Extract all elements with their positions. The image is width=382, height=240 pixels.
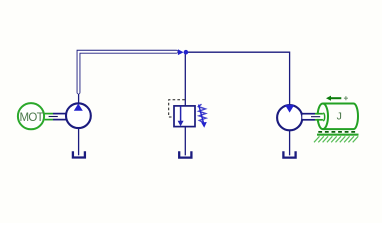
pilot line (dashed) <box>169 100 185 117</box>
wire: pump bottom to tank <box>78 128 80 155</box>
rotation direction arrow (above load) <box>326 96 341 101</box>
wire: junction down to relief valve inlet <box>184 52 186 106</box>
valve body <box>174 106 195 127</box>
flow direction arrow at hose end <box>178 49 184 55</box>
flow path arrow inside valve <box>180 106 182 122</box>
wire: junction right and down to hydraulic motor inlet <box>185 52 289 105</box>
wire: pump top port stub <box>78 92 80 105</box>
wire: hydraulic motor bottom to tank <box>289 131 291 156</box>
wire: relief valve outlet to tank <box>184 127 186 156</box>
tank T3 (under hydraulic motor) <box>283 151 295 157</box>
ground under load: base bar <box>317 134 359 136</box>
shaft: motor to pump <box>45 114 67 120</box>
hydraulic hose (double-line pipe) from pump to junction <box>79 52 177 93</box>
junction node <box>184 50 189 55</box>
hydraulic pump P1 <box>66 103 91 128</box>
spring adjustment arrow <box>199 105 204 123</box>
ground under load: dashed contact line <box>318 131 357 133</box>
ground hatching <box>314 136 358 142</box>
hydraulic motor M2 <box>277 105 302 130</box>
pressure relief valve <box>169 100 207 128</box>
svg-text:MOT: MOT <box>19 112 43 124</box>
svg-text:J: J <box>337 111 342 123</box>
rotary inertia load J (cylinder) <box>318 104 358 130</box>
tank T2 (under relief valve) <box>179 151 191 157</box>
tank T1 (under pump) <box>73 151 85 157</box>
positive direction plus sign <box>344 96 348 100</box>
spring <box>198 104 206 122</box>
shaft: hydraulic motor to load <box>302 113 324 121</box>
electric motor MOT <box>18 103 44 129</box>
